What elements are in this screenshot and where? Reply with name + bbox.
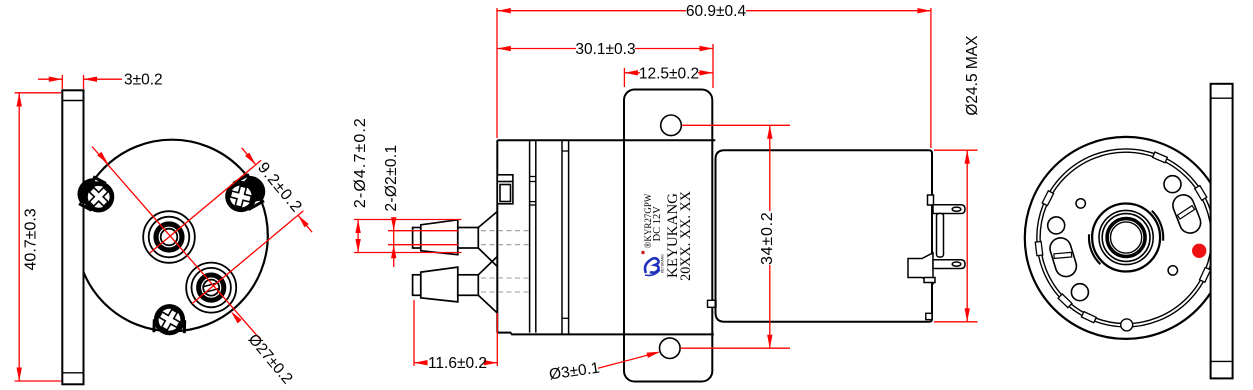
dimension text Ø24.5 MAX [964, 35, 981, 116]
right stadium vent slot [1170, 192, 1204, 236]
svg-text:Ø3±0.1: Ø3±0.1 [548, 360, 601, 384]
mounting plate (left flange) [62, 90, 83, 384]
svg-text:40.7±0.3: 40.7±0.3 [23, 208, 40, 270]
lower motor terminal [908, 253, 965, 284]
red marking dot [1192, 244, 1206, 258]
dimension 34±0.2 (bracket hole spacing) [681, 125, 791, 348]
svg-text:20XX. XX. XX: 20XX. XX. XX [678, 191, 694, 281]
pump body outline [497, 140, 715, 334]
small hole lower-right [1168, 266, 1177, 275]
lower hose barb bore centerlines (dashed) [413, 278, 529, 292]
red diagonal centerline through both ports (Ø27 dimension) [92, 147, 260, 339]
svg-text:3±0.2: 3±0.2 [124, 72, 163, 89]
dimension text 9.2±0.2 [254, 159, 305, 216]
dimension 3±0.2 (plate thickness) [38, 72, 163, 90]
label text column KEYUKANG [665, 193, 681, 278]
screw bottom [153, 304, 185, 336]
center port (inlet boss) [143, 211, 195, 263]
svg-text:KEYUKANG: KEYUKANG [661, 254, 665, 273]
terminal vertical strip [937, 214, 944, 258]
dimension text 2-Ø4.7±0.2 [352, 117, 369, 208]
screw top-left [72, 173, 120, 218]
dimension text Ø27±0.2 [245, 331, 296, 387]
svg-text:2-Ø4.7±0.2: 2-Ø4.7±0.2 [352, 117, 369, 208]
dimension text 40.7±0.3 [23, 208, 40, 270]
dimension text 34±0.2 [759, 211, 776, 265]
bracket top hole [661, 115, 682, 136]
label text column 20XX. XX. XX [678, 191, 694, 281]
svg-text:12.5±0.2: 12.5±0.2 [639, 65, 699, 82]
svg-text:60.9±0.4: 60.9±0.4 [686, 3, 747, 20]
dimension 2-Ø4.7±0.2 [354, 220, 462, 253]
leader Ø3±0.1 to bracket hole [548, 349, 661, 383]
screw top-right [220, 170, 271, 218]
svg-text:Ø24.5 MAX: Ø24.5 MAX [964, 35, 981, 116]
right mounting plate (rear) [1211, 84, 1233, 379]
label text column KYR27GPW [643, 193, 653, 248]
mounting bracket (middle view) [624, 90, 712, 382]
bracket bottom hole [660, 338, 681, 359]
dimension 2-Ø2±0.1 [388, 217, 458, 267]
upper motor terminal [928, 195, 966, 214]
second port (outlet boss with slotted screw) [186, 263, 236, 313]
motor body [716, 150, 933, 322]
upper hose barb bore centerlines (dashed) [413, 231, 529, 245]
dimension 30.1±0.3 [497, 41, 713, 88]
svg-text:2-Ø2±0.1: 2-Ø2±0.1 [383, 145, 400, 212]
dimension Ø24.5 MAX (motor diameter) [934, 150, 978, 322]
upper hose barb [413, 212, 498, 267]
motor rear outer circle [1025, 137, 1227, 339]
bracket clip detail [708, 300, 717, 307]
dimension text 2-Ø2±0.1 [383, 145, 400, 212]
blue brand logo [641, 251, 664, 276]
bearing hub [1089, 204, 1163, 272]
left stadium vent slot [1047, 235, 1079, 279]
svg-text:11.6±0.2: 11.6±0.2 [428, 355, 487, 372]
motor bottom clip [926, 313, 932, 319]
label text column DC 12V [652, 206, 663, 242]
dimension 12.5±0.2 [624, 65, 713, 87]
dimension 40.7±0.3 (plate height) [15, 93, 61, 381]
small hole upper-left [1076, 199, 1085, 208]
motor can double ring [1037, 149, 1215, 327]
dimension line 9.2±0.2 with outside arrows [242, 148, 312, 232]
svg-text:30.1±0.3: 30.1±0.3 [575, 41, 635, 58]
medium hole left [1048, 217, 1065, 234]
svg-text:Ø27±0.2: Ø27±0.2 [245, 331, 296, 387]
pump main circle (front face) [76, 140, 268, 332]
dimension 60.9±0.4 [497, 3, 931, 148]
lower hose barb [413, 257, 498, 314]
pump head section lines [530, 140, 569, 334]
medium hole bottom-left [1071, 284, 1088, 301]
crimp tabs on ring [1035, 152, 1210, 323]
medium hole top-right [1164, 176, 1181, 193]
svg-text:DC 12V: DC 12V [652, 206, 663, 242]
9.2 extension line through center port [150, 160, 261, 253]
bottom bump on ring [1121, 319, 1133, 331]
dimension 11.6±0.2 [414, 300, 497, 372]
9.2 extension line through second port [192, 211, 303, 304]
latch clip on pump head [497, 175, 513, 204]
svg-text:34±0.2: 34±0.2 [759, 211, 776, 265]
